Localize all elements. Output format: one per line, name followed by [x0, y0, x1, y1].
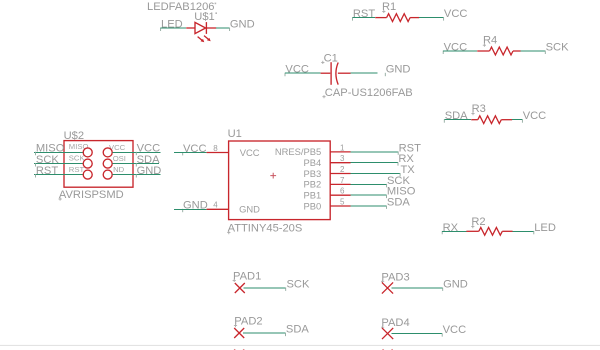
svg-text:GND: GND [137, 165, 162, 177]
partial pad cross of next page (left) [234, 349, 244, 350]
wire net LED to U$1 anode [161, 27, 187, 29]
svg-text:SCK: SCK [546, 42, 569, 54]
IC U1 origin cross [270, 173, 276, 179]
net label LED (left of U$1) [161, 18, 183, 31]
resistor R3 zigzag body [478, 116, 502, 124]
wire R3 to VCC [512, 119, 522, 121]
svg-text:2: 2 [340, 165, 345, 174]
svg-text:PAD4: PAD4 [381, 317, 409, 329]
U$2 pin circle GND [103, 170, 112, 179]
LED U$1 anode pin stub [186, 27, 195, 29]
wire U1 pin 1 to RST [351, 151, 399, 153]
svg-text:VCC: VCC [240, 147, 260, 158]
wire VCC to R4 [443, 50, 477, 52]
net label MISO (right of U1) [387, 186, 416, 199]
capacitor C1 left lead [321, 72, 331, 74]
wire RST to U$2 pin [34, 174, 84, 176]
svg-text:RX: RX [443, 222, 459, 234]
svg-text:1: 1 [340, 143, 345, 152]
U1 pin 2 stub [330, 173, 350, 175]
svg-text:VCC: VCC [443, 324, 467, 336]
wire U1 pin 7 to SCK [351, 183, 387, 185]
net label VCC (right of R1) [444, 8, 468, 21]
net label GND (right of PAD3) [443, 278, 468, 291]
wire U$2 to VCC [112, 151, 160, 153]
U$2 pin circle SCK [83, 159, 92, 168]
wire C1 to GND [351, 72, 378, 74]
resistor R3 name label [471, 103, 485, 115]
svg-text:RST: RST [36, 165, 58, 177]
connector U$2 body outline [64, 141, 133, 188]
wire U1 pin 3 to RX [351, 162, 398, 164]
net label SDA (left of R3) [444, 110, 468, 123]
resistor R3 right lead [501, 119, 512, 121]
svg-text:VCC: VCC [523, 110, 547, 122]
wire U1 pin 2 to TX [351, 173, 401, 175]
net label VCC (left of U1) [183, 143, 207, 156]
resistor R1 left lead [375, 17, 386, 19]
resistor R4 left lead [477, 50, 489, 52]
resistor R1 right lead [410, 17, 419, 19]
svg-text:MISO: MISO [69, 142, 89, 151]
svg-text:RST: RST [353, 8, 375, 20]
svg-text:PAD3: PAD3 [381, 271, 409, 283]
wire U$1 cathode to GND [216, 27, 229, 29]
net label GND (right of U$2) [136, 165, 161, 178]
resistor R1 zigzag body [387, 14, 411, 22]
net label VCC (left of R4) [443, 42, 467, 55]
svg-text:PB4: PB4 [303, 157, 321, 168]
wire PAD4 to VCC [391, 333, 442, 335]
svg-text:GND: GND [443, 278, 468, 290]
pad PAD2 cross symbol [234, 328, 244, 338]
capacitor C1 curved plate [336, 63, 338, 85]
resistor R4 name label [483, 35, 497, 47]
wire GND to U1 pin 4 [174, 208, 207, 210]
capacitor C1 value label CAP-US1206FAB [322, 87, 412, 99]
svg-text:U$1: U$1 [194, 11, 214, 23]
resistor R2 name label [471, 216, 485, 228]
svg-text:GND: GND [183, 200, 208, 212]
U1 pin 8 stub [207, 152, 229, 154]
net label VCC (left of C1) [285, 64, 309, 77]
wire SDA to R3 [444, 119, 471, 121]
wire PAD1 to SCK [244, 287, 286, 289]
wire R2 to LED [513, 230, 534, 232]
U1 pin 6 stub [330, 194, 350, 196]
pad PAD3 cross symbol [382, 282, 393, 293]
IC U1 value label ATTINY45-20S [227, 223, 302, 235]
svg-text:PB3: PB3 [303, 168, 321, 179]
capacitor C1 name label [321, 53, 338, 65]
U1 pin 4 stub [207, 208, 229, 210]
wire R4 to SCK [521, 50, 546, 52]
svg-text:PB1: PB1 [303, 190, 321, 201]
net label GND (right of C1) [385, 64, 410, 77]
wire PAD3 to GND [391, 287, 442, 289]
svg-text:PB2: PB2 [303, 179, 321, 190]
net label SCK (right of PAD1) [286, 278, 310, 291]
net label GND (left of U1) [183, 200, 208, 213]
page edge line [0, 344, 600, 346]
net label MISO (left of U$2) [36, 143, 65, 156]
pad PAD2 name label [234, 316, 263, 328]
svg-text:CAP-US1206FAB: CAP-US1206FAB [325, 87, 413, 99]
capacitor C1 straight plate [330, 62, 332, 85]
svg-text:ATTINY45-20S: ATTINY45-20S [228, 223, 303, 235]
wire U1 pin 5 to SDA [351, 205, 387, 207]
svg-text:MISO: MISO [36, 143, 65, 155]
wire VCC to C1 [285, 72, 321, 74]
net label RST (right of U1) [398, 142, 421, 155]
svg-text:RST: RST [69, 165, 85, 174]
pad PAD3 name label [381, 271, 410, 283]
wire SCK to U$2 pin [34, 163, 84, 165]
pad PAD4 name label [381, 317, 410, 329]
resistor R2 right lead [502, 230, 512, 232]
svg-text:PB0: PB0 [303, 200, 321, 211]
svg-text:VCC: VCC [444, 42, 468, 54]
net label SCK (right of R4) [545, 42, 569, 55]
svg-text:AVRISPSMD: AVRISPSMD [59, 189, 124, 201]
wire U1 pin 6 to MISO [351, 194, 387, 196]
net label SCK (right of U1) [387, 175, 411, 188]
wire MISO to U$2 pin [34, 151, 84, 153]
U$2 pin circle RST [83, 170, 92, 179]
svg-text:SDA: SDA [445, 110, 468, 122]
net label VCC (right of U$2) [136, 143, 160, 156]
LED U$1 name label LEDFAB1206 [147, 1, 216, 13]
pad PAD1 name label [233, 270, 262, 282]
partial pad cross of next page (right) [383, 349, 393, 350]
svg-text:LED: LED [161, 18, 183, 30]
svg-text:GND: GND [386, 64, 411, 76]
wire RX to R2 [442, 230, 466, 232]
net label GND (right of U$1) [230, 18, 255, 31]
svg-text:VCC: VCC [444, 8, 468, 20]
LED U$1 cathode pin stub [206, 27, 216, 29]
pad PAD4 cross symbol [382, 328, 393, 339]
U1 pin 1 stub [330, 151, 350, 153]
U1 pin 7 stub [330, 183, 350, 185]
U$2 pin circle VCC [103, 148, 112, 157]
capacitor C1 right lead [338, 72, 351, 74]
LED U$1 emission arrow 1 [198, 37, 205, 43]
svg-text:7: 7 [340, 176, 345, 185]
resistor R2 left lead [466, 230, 478, 232]
net label RX (left of R2) [442, 222, 458, 235]
svg-text:NRES/PB5: NRES/PB5 [275, 146, 321, 157]
pad PAD1 cross symbol [235, 283, 245, 293]
svg-text:SCK: SCK [69, 154, 86, 163]
svg-text:LED: LED [534, 222, 556, 234]
svg-text:GND: GND [230, 18, 255, 30]
U$2 pin circle MOSI [103, 159, 112, 168]
LED U$1 emission arrow 2 [204, 36, 211, 42]
svg-text:VCC: VCC [137, 143, 161, 155]
wire U$2 to SDA [112, 163, 158, 165]
net label VCC (right of R3) [522, 110, 546, 123]
svg-text:PAD1: PAD1 [233, 270, 261, 282]
wire U$2 to GND [112, 174, 160, 176]
svg-text:SDA: SDA [387, 196, 410, 208]
svg-text:4: 4 [213, 201, 218, 210]
net label VCC (right of PAD4) [442, 324, 466, 337]
svg-text:8: 8 [213, 144, 218, 153]
svg-text:GND: GND [239, 204, 260, 215]
resistor R1 name label [382, 1, 396, 13]
net label SDA (right of U$2) [136, 154, 160, 167]
LED U$1 refdes label U$1 [194, 11, 217, 23]
net label TX (right of U1) [400, 164, 415, 177]
svg-text:3: 3 [340, 154, 345, 163]
resistor R2 zigzag body [479, 227, 503, 235]
U1 pin 5 stub [330, 205, 350, 207]
net label SDA (right of U1) [387, 196, 411, 209]
svg-text:ND: ND [113, 165, 125, 174]
wire R1 to VCC [419, 17, 443, 19]
LED U$1 cathode bar [205, 22, 207, 34]
resistor R4 right lead [513, 50, 521, 52]
resistor R4 zigzag body [490, 47, 514, 55]
svg-text:6: 6 [340, 187, 345, 196]
svg-text:U1: U1 [228, 128, 242, 140]
svg-text:5: 5 [340, 197, 345, 206]
wire VCC to U1 pin 8 [174, 152, 207, 154]
net label SCK (left of U$2) [36, 154, 60, 167]
U$2 pin circle MISO [83, 148, 92, 157]
svg-text:SCK: SCK [287, 278, 310, 290]
svg-text:SDA: SDA [286, 324, 309, 336]
resistor R3 left lead [471, 119, 478, 121]
svg-text:VCC: VCC [183, 143, 207, 155]
wire RST to R1 [353, 17, 376, 19]
net label RST (left of R1) [353, 8, 376, 21]
svg-text:PAD2: PAD2 [234, 316, 262, 328]
net label LED (right of R2) [534, 222, 556, 235]
svg-text:VCC: VCC [285, 64, 309, 76]
net label SDA (right of PAD2) [286, 324, 310, 337]
U1 pin 3 stub [330, 162, 350, 164]
net label RX (right of U1) [398, 153, 414, 166]
IC U1 body outline [229, 141, 331, 220]
wire PAD2 to SDA [243, 332, 285, 334]
svg-text:OSI: OSI [113, 154, 126, 163]
LED U$1 diode triangle [195, 22, 206, 33]
connector U$2 value label AVRISPSMD [59, 189, 124, 201]
net label RST (left of U$2) [36, 165, 59, 178]
